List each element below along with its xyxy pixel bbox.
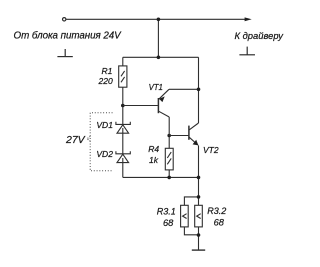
transistor VT2 (NPN) bbox=[169, 123, 198, 145]
wire VT1 collector drop bbox=[168, 117, 170, 136]
wire top rail bbox=[66, 18, 245, 20]
node junction R1/VD1/VT1 base bbox=[121, 104, 125, 108]
wire R4 bottom bbox=[168, 170, 170, 178]
transistor VT1 (PNP) bbox=[123, 89, 169, 135]
resistor R1 bbox=[119, 66, 127, 87]
svg-text:68: 68 bbox=[214, 218, 225, 228]
svg-text:1k: 1k bbox=[149, 155, 159, 165]
svg-text:VT1: VT1 bbox=[149, 83, 163, 92]
svg-text:27V: 27V bbox=[65, 134, 86, 146]
wire VD2 to bottom rail bbox=[122, 158, 124, 177]
svg-text:VT2: VT2 bbox=[203, 145, 219, 155]
arrow to driver bbox=[245, 17, 252, 21]
resistor R3.2 bbox=[195, 205, 203, 227]
svg-text:VD2: VD2 bbox=[96, 149, 113, 159]
svg-text:R3.1: R3.1 bbox=[157, 206, 176, 216]
node junction VT1 emitter / rail bbox=[197, 88, 201, 92]
svg-text:К драйверу: К драйверу bbox=[235, 30, 285, 41]
node junction top rail bbox=[157, 18, 161, 22]
svg-text:R4: R4 bbox=[148, 144, 159, 154]
node junction bottom rail bbox=[197, 176, 201, 180]
zener diode VD1 bbox=[116, 122, 130, 133]
node junction R4 bottom bbox=[167, 176, 171, 180]
ground bbox=[192, 249, 205, 251]
arrow VT1 emitter (PNP, into base) bbox=[159, 96, 165, 102]
resistor R3.1 bbox=[181, 205, 189, 227]
chassis terminal right bbox=[239, 47, 255, 55]
27V pointer bbox=[87, 136, 90, 141]
svg-text:VD1: VD1 bbox=[96, 120, 113, 130]
wire R3.2 bottom to ground bbox=[198, 227, 200, 250]
arrow VT2 emitter (NPN, outward) bbox=[193, 140, 199, 146]
node junction VT1 collector / VT2 base / R4 bbox=[167, 134, 171, 138]
wire R1 top stub bbox=[122, 57, 124, 66]
wire VT1 base lead bbox=[123, 105, 158, 107]
wire VT1 emitter horizontal bbox=[169, 88, 199, 90]
node junction R3 bottom bbox=[197, 233, 201, 237]
node junction upper horizontal bbox=[157, 56, 161, 60]
svg-text:R3.2: R3.2 bbox=[207, 206, 226, 216]
resistor R4 bbox=[165, 148, 173, 170]
svg-text:68: 68 bbox=[163, 218, 174, 228]
wire R1 bottom to VD1 bbox=[122, 87, 124, 124]
svg-text:R1: R1 bbox=[102, 66, 113, 76]
svg-text:От блока питания 24V: От блока питания 24V bbox=[14, 30, 123, 41]
wire drop from top rail bbox=[157, 19, 159, 57]
node junction R3 top bbox=[197, 195, 201, 199]
svg-text:220: 220 bbox=[98, 76, 113, 86]
wire R4 top bbox=[168, 136, 170, 149]
27V selection dashed box bbox=[90, 113, 112, 171]
wire VT2 base lead bbox=[169, 135, 188, 137]
zener diode VD2 bbox=[116, 151, 130, 162]
node input terminal circle bbox=[62, 18, 65, 21]
wire right rail lower bbox=[198, 145, 200, 205]
chassis terminal left bbox=[57, 49, 72, 57]
wire R3 branch top bbox=[184, 197, 198, 205]
wire R3 branch bottom bbox=[184, 227, 198, 235]
wire right rail upper bbox=[198, 57, 200, 123]
wire upper horizontal bbox=[123, 56, 199, 58]
wire VD1 to VD2 bbox=[122, 128, 124, 154]
wire bottom horizontal bbox=[123, 176, 199, 178]
